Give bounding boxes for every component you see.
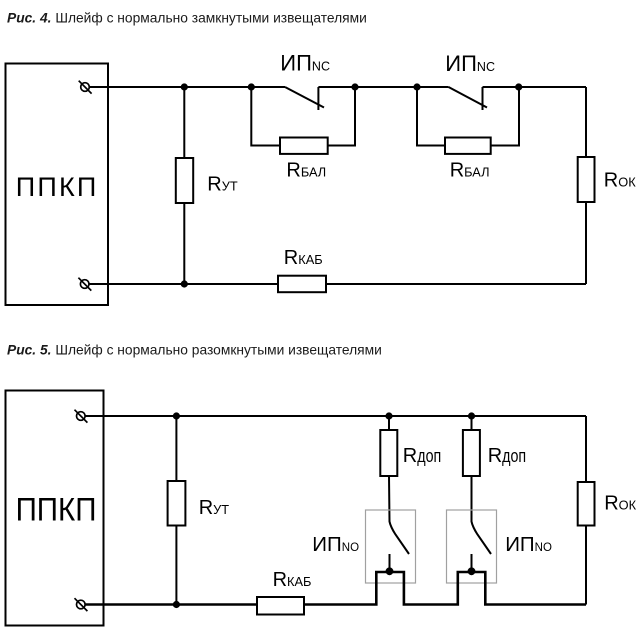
svg-text:Рис. 4. Шлейф с нормально замк: Рис. 4. Шлейф с нормально замкнутыми изв… <box>7 11 367 26</box>
svg-text:ППКП: ППКП <box>16 172 99 202</box>
svg-text:ППКП: ППКП <box>16 491 97 528</box>
svg-text:Рис. 5. Шлейф с нормально разо: Рис. 5. Шлейф с нормально разомкнутыми и… <box>7 343 382 358</box>
svg-text:Rдоп: Rдоп <box>488 445 526 467</box>
svg-text:Rдоп: Rдоп <box>403 445 441 467</box>
